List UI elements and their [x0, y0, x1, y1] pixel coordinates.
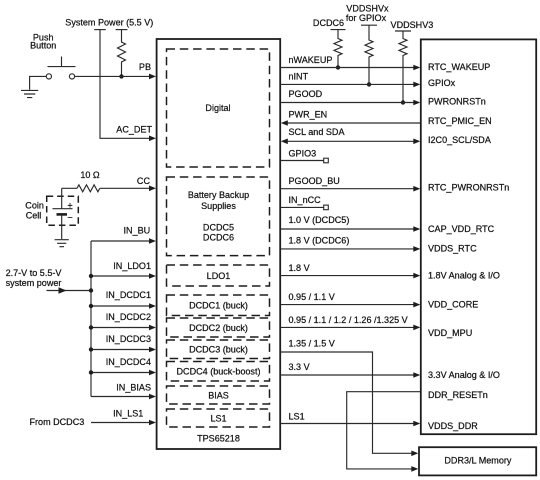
- svg-text:GPIOx: GPIOx: [428, 78, 456, 88]
- svg-text:0.95 / 1.1 / 1.2 / 1.26 /1.325: 0.95 / 1.1 / 1.2 / 1.26 /1.325 V: [289, 315, 408, 325]
- DCDC1 block: [167, 295, 270, 316]
- svg-text:3.3 V: 3.3 V: [289, 362, 310, 372]
- wire 1.0 V: [280, 228, 414, 230]
- svg-text:2.7-V to 5.5-V: 2.7-V to 5.5-V: [6, 268, 62, 278]
- power rail bar (left): [94, 29, 106, 31]
- wire 3.3 V: [280, 374, 414, 376]
- svg-text:IN_BU: IN_BU: [124, 225, 151, 235]
- wire GPIO3: [280, 160, 323, 162]
- svg-text:CC: CC: [137, 176, 151, 186]
- junction PB pull-up: [119, 74, 123, 78]
- svg-text:From DCDC3: From DCDC3: [30, 417, 85, 427]
- DDR3/L Memory block: [419, 447, 536, 475]
- svg-text:DDR3/L Memory: DDR3/L Memory: [444, 456, 512, 466]
- svg-text:I2C0_SCL/SDA: I2C0_SCL/SDA: [428, 135, 492, 145]
- svg-text:LDO1: LDO1: [207, 271, 231, 281]
- wire 0.95-1.325 V: [280, 326, 414, 328]
- wire IN_DCDC1: [91, 305, 150, 307]
- arrowhead PB: [149, 74, 156, 80]
- svg-text:1.8V Analog & I/O: 1.8V Analog & I/O: [428, 271, 500, 281]
- junction IN_DCDC1: [89, 304, 93, 308]
- wire SCL and SDA (bidirectional): [287, 140, 414, 142]
- DCDC2 block: [167, 318, 270, 337]
- svg-text:VDD_CORE: VDD_CORE: [428, 300, 478, 310]
- TPS65218 block U1: [157, 39, 281, 449]
- power rail bar (right): [116, 29, 128, 31]
- svg-text:Digital: Digital: [205, 103, 230, 113]
- wire system power input: [47, 290, 92, 292]
- svg-text:IN_nCC: IN_nCC: [289, 195, 322, 205]
- pull-up resistor R3 (VDDSHV3): [395, 31, 411, 103]
- ground (push button): [21, 90, 38, 97]
- svg-text:1.35 / 1.5 V: 1.35 / 1.5 V: [289, 339, 335, 349]
- wire PB to ground: [30, 76, 47, 89]
- wire AC_DET: [100, 30, 150, 139]
- svg-text:VDD_MPU: VDD_MPU: [428, 328, 472, 338]
- wire IN_BIAS: [91, 396, 150, 398]
- svg-text:for GPIOx: for GPIOx: [346, 13, 387, 23]
- wire nWAKEUP: [280, 67, 414, 69]
- svg-text:Battery Backup: Battery Backup: [188, 190, 249, 200]
- svg-text:IN_DCDC3: IN_DCDC3: [106, 334, 151, 344]
- svg-text:Button: Button: [30, 41, 56, 51]
- svg-text:RTC_WAKEUP: RTC_WAKEUP: [428, 62, 490, 72]
- svg-text:1.8 V: 1.8 V: [289, 263, 310, 273]
- svg-text:0.95 / 1.1 V: 0.95 / 1.1 V: [289, 292, 335, 302]
- svg-text:DCDC2 (buck): DCDC2 (buck): [189, 323, 248, 333]
- wire LS1: [280, 423, 414, 425]
- wire PGOOD_BU: [280, 188, 414, 190]
- arrowhead CC: [149, 186, 156, 192]
- svg-text:PWR_EN: PWR_EN: [289, 109, 328, 119]
- svg-text:Supplies: Supplies: [201, 201, 236, 211]
- svg-text:DCDC4 (buck-boost): DCDC4 (buck-boost): [177, 367, 261, 377]
- wire IN_BU: [91, 240, 150, 242]
- junction IN_DCDC3: [89, 347, 93, 351]
- junction IN_LDO1: [89, 274, 93, 278]
- svg-text:10 Ω: 10 Ω: [80, 170, 100, 180]
- LDO1 block: [167, 265, 270, 286]
- wire nINT: [280, 83, 414, 85]
- svg-text:IN_BIAS: IN_BIAS: [116, 382, 151, 392]
- terminal GPIO3 (open square): [324, 158, 329, 163]
- junction system power input: [89, 288, 93, 292]
- junction IN_DCDC4: [89, 370, 93, 374]
- terminal IN_nCC (open square): [324, 205, 329, 210]
- junction IN_DCDC2: [89, 325, 93, 329]
- svg-text:LS1: LS1: [210, 413, 226, 423]
- wire 0.95 / 1.1 V: [280, 304, 414, 306]
- DCDC4 block: [167, 362, 270, 382]
- pull-up resistor R1 (DCDC6): [331, 30, 346, 68]
- wire 1.35 / 1.5 V to DDR memory: [280, 352, 412, 453]
- junction nINT pull-up: [367, 82, 371, 86]
- arrowhead AC_DET: [149, 136, 156, 142]
- wire PGOOD: [280, 102, 414, 104]
- junction PGOOD pull-up: [401, 100, 405, 104]
- svg-text:−: −: [67, 213, 72, 223]
- svg-text:1.0 V (DCDC5): 1.0 V (DCDC5): [289, 215, 350, 225]
- svg-text:nWAKEUP: nWAKEUP: [289, 55, 333, 65]
- resistor 10 ohm: [77, 185, 100, 192]
- svg-text:system power: system power: [6, 278, 62, 288]
- wire IN_LS1: [91, 422, 150, 424]
- svg-text:+: +: [67, 200, 72, 210]
- svg-text:IN_LDO1: IN_LDO1: [113, 261, 151, 271]
- wire IN_LDO1: [91, 275, 150, 277]
- svg-text:DCDC3 (buck): DCDC3 (buck): [189, 345, 248, 355]
- svg-text:Coin: Coin: [25, 201, 44, 211]
- svg-text:VDDSHV3: VDDSHV3: [391, 20, 434, 30]
- svg-text:System Power (5.5 V): System Power (5.5 V): [65, 17, 153, 27]
- svg-text:1.8 V (DCDC6): 1.8 V (DCDC6): [289, 236, 350, 246]
- Digital block: [167, 49, 270, 167]
- svg-text:PGOOD_BU: PGOOD_BU: [289, 176, 340, 186]
- svg-text:LS1: LS1: [289, 412, 305, 422]
- svg-text:SCL and SDA: SCL and SDA: [289, 127, 346, 137]
- svg-text:DDR_RESETn: DDR_RESETn: [428, 390, 488, 400]
- resistor pull-up PB: [118, 30, 126, 77]
- svg-text:DCDC6: DCDC6: [313, 18, 344, 28]
- LS1 block: [167, 409, 270, 427]
- svg-text:IN_LS1: IN_LS1: [113, 408, 143, 418]
- battery BT1: [53, 188, 73, 208]
- svg-text:CAP_VDD_RTC: CAP_VDD_RTC: [428, 224, 495, 234]
- svg-text:PB: PB: [139, 62, 151, 72]
- wire 1.8 V (DCDC6): [280, 248, 414, 250]
- svg-text:VDDS_RTC: VDDS_RTC: [428, 244, 477, 254]
- Battery Backup Supplies block: [167, 177, 270, 256]
- svg-text:Cell: Cell: [26, 210, 42, 220]
- svg-text:TPS65218: TPS65218: [197, 434, 240, 444]
- wire input bus vertical: [90, 241, 92, 397]
- svg-text:RTC_PMIC_EN: RTC_PMIC_EN: [428, 116, 492, 126]
- svg-text:PGOOD: PGOOD: [289, 89, 323, 99]
- wire battery to ground: [61, 214, 63, 239]
- ground (coin cell): [55, 240, 69, 247]
- wire IN_DCDC3: [91, 349, 150, 351]
- svg-text:PWRONRSTn: PWRONRSTn: [428, 97, 486, 107]
- svg-text:GPIO3: GPIO3: [289, 148, 317, 158]
- wire CC: [62, 187, 150, 189]
- wire IN_nCC: [280, 206, 323, 208]
- wire PWR_EN: [287, 122, 420, 124]
- wire PB: [75, 75, 150, 77]
- svg-text:DCDC1 (buck): DCDC1 (buck): [189, 301, 248, 311]
- pull-up resistor R2 (VDDSHVx): [361, 25, 377, 84]
- wire 1.8 V: [280, 275, 414, 277]
- wire DDR_RESETn to DDR memory: [347, 392, 421, 469]
- svg-text:IN_DCDC4: IN_DCDC4: [106, 357, 151, 367]
- coin cell dashed box: [47, 196, 79, 225]
- svg-text:nINT: nINT: [289, 72, 309, 82]
- wire IN_DCDC2: [91, 327, 150, 329]
- processor block U2: [421, 39, 536, 434]
- svg-text:DCDC6: DCDC6: [203, 232, 234, 242]
- DCDC3 block: [167, 340, 270, 359]
- svg-text:IN_DCDC1: IN_DCDC1: [106, 290, 151, 300]
- junction nWAKEUP pull-up: [336, 65, 340, 69]
- svg-text:BIAS: BIAS: [208, 390, 229, 400]
- wire IN_DCDC4: [91, 372, 150, 374]
- svg-text:RTC_PWRONRSTn: RTC_PWRONRSTn: [428, 183, 509, 193]
- BIAS block: [167, 386, 270, 404]
- svg-text:DCDC5: DCDC5: [203, 222, 234, 232]
- push button S1: [48, 57, 76, 67]
- svg-text:IN_DCDC2: IN_DCDC2: [106, 312, 151, 322]
- svg-text:AC_DET: AC_DET: [116, 125, 152, 135]
- svg-text:VDDS_DDR: VDDS_DDR: [428, 421, 478, 431]
- svg-text:3.3V Analog & I/O: 3.3V Analog & I/O: [428, 370, 500, 380]
